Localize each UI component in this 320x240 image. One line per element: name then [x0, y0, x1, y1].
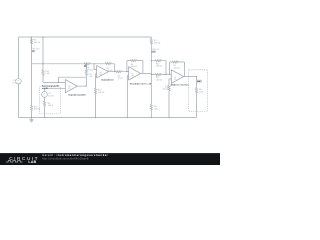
wire U2 plus to ground rail — [96, 74, 97, 118]
resistor R7 — [172, 61, 178, 63]
wire top rail — [19, 36, 152, 38]
junction at 86.3,63.8 — [86, 63, 87, 64]
junction at 58.5,82.5 — [58, 82, 59, 83]
wire U3 plus to bottom — [127, 76, 128, 118]
wire rail x151 — [150, 37, 152, 117]
svg-text:http://circuitlab.com/c4jw64tk: http://circuitlab.com/c4jw64tk2bqm8 — [42, 157, 89, 161]
wire node row y63.8 — [32, 63, 95, 65]
resistor R5 — [150, 39, 152, 44]
svg-text:OP..: OP.. — [131, 76, 135, 78]
wire out node down — [196, 77, 198, 118]
logo waveform — [6, 161, 23, 163]
junction at 86.3,86.15 — [86, 86, 87, 87]
resistor R16 divider low — [30, 105, 32, 110]
resistor R6 — [30, 39, 32, 44]
junction at 31.5,37 — [31, 36, 32, 37]
junction at 95.5,117.4 — [95, 117, 96, 118]
op-amp U5 inverting — [129, 67, 141, 80]
svg-text:mit Ri: mit Ri — [42, 87, 48, 90]
wire U1 output — [77, 85, 86, 87]
svg-text:Impedanzwandler: Impedanzwandler — [68, 93, 86, 96]
junction at 196.5,76.6 — [196, 76, 197, 77]
svg-text:VB 4.5V: VB 4.5V — [152, 49, 160, 51]
svg-text:100 kΩ: 100 kΩ — [154, 42, 161, 44]
svg-text:100 Ω: 100 Ω — [48, 105, 54, 107]
wire V1 bottom — [44, 97, 46, 117]
svg-text:Verstärker mit V = -10: Verstärker mit V = -10 — [130, 82, 152, 85]
svg-text:100 kΩ: 100 kΩ — [174, 67, 181, 69]
svg-text:100 kΩ: 100 kΩ — [156, 79, 163, 81]
wire U1 feedback — [59, 77, 87, 86]
svg-text:1 kΩ: 1 kΩ — [45, 73, 50, 75]
junction at 166,74.33 — [165, 74, 166, 75]
junction at 94,63.8 — [93, 63, 94, 64]
svg-text:-: - — [44, 95, 45, 98]
junction at 126.9,71.7 — [126, 71, 127, 72]
wire U4 plus to bottom rail — [169, 79, 171, 118]
wire U4 minus — [166, 73, 171, 75]
junction at 151.3,60.7 — [151, 60, 152, 61]
wire left rail — [18, 37, 20, 117]
wire U3 output — [141, 72, 152, 74]
resistor R11 — [195, 88, 197, 93]
svg-text:LAB: LAB — [28, 160, 36, 164]
junction at 127.3,117.4 — [127, 117, 128, 118]
wire ground stub — [31, 117, 33, 119]
svg-text:OP..: OP.. — [99, 74, 103, 76]
junction at 114.7,71.7 — [114, 71, 115, 72]
resistor R4 — [131, 60, 137, 62]
ground main — [30, 120, 34, 123]
resistor R17 — [85, 70, 87, 75]
junction at 31.5,117.4 — [31, 117, 32, 118]
resistor R9 — [43, 101, 45, 106]
voltage source V1 — [42, 92, 48, 98]
svg-text:1 kΩ: 1 kΩ — [89, 76, 93, 78]
wire Rgain bottom row — [151, 74, 166, 76]
wire rail x31.5 — [31, 37, 33, 117]
resistor R2 — [105, 62, 111, 64]
resistor R14 — [155, 74, 161, 76]
svg-text:100 kΩ: 100 kΩ — [131, 66, 138, 68]
op-amp U2 output stage — [171, 70, 183, 84]
svg-text:out: out — [197, 80, 200, 83]
svg-text:-: - — [18, 82, 19, 85]
svg-text:10 mV: 10 mV — [48, 95, 54, 97]
svg-text:VB 4.5V: VB 4.5V — [32, 49, 40, 51]
wire rail x43 — [43, 37, 65, 83]
node flag out — [197, 80, 202, 83]
wire U2 minus — [94, 64, 97, 70]
svg-text:1 kΩ: 1 kΩ — [199, 92, 204, 94]
junction at 151.3,117.4 — [151, 117, 152, 118]
op-amp U3 buffer — [65, 80, 77, 93]
voltage source V2 — [16, 79, 22, 85]
junction at 43,63.8 — [42, 63, 43, 64]
annotation box load — [189, 70, 208, 112]
junction dots — [31, 36, 197, 118]
junction at 169.6,74.33 — [169, 74, 170, 75]
svg-text:100 kΩ: 100 kΩ — [34, 42, 41, 44]
resistor R15 — [150, 104, 152, 109]
wire U4 feedback — [170, 62, 185, 77]
svg-text:OP..: OP.. — [68, 88, 72, 90]
wire U2 output — [108, 71, 127, 73]
resistor R13 — [155, 60, 161, 62]
node flag v2 — [84, 65, 87, 67]
svg-text:Harald : instrumentierungsvers: Harald : instrumentierungsverstaerker — [42, 153, 108, 157]
wire U3 minus — [127, 70, 129, 72]
wire rail x166 — [165, 61, 167, 75]
svg-text:100 kΩ: 100 kΩ — [156, 65, 163, 67]
wire Rgain top row — [151, 60, 166, 62]
wire U4 output — [184, 76, 197, 78]
svg-text:100 kΩ: 100 kΩ — [107, 70, 113, 72]
junction at 44.5,117.4 — [44, 117, 45, 118]
resistor R18 — [168, 85, 170, 90]
svg-text:100 kΩ: 100 kΩ — [98, 92, 105, 94]
svg-text:Addierer / Inverter: Addierer / Inverter — [171, 83, 189, 86]
junction at 151.3,74.1 — [151, 74, 152, 75]
node flag VB left — [32, 50, 35, 52]
wire U3 feedback — [127, 61, 143, 74]
resistor R3 — [116, 71, 122, 73]
op-amp U4 subtractor — [97, 66, 109, 78]
svg-text:OP..: OP.. — [174, 79, 178, 81]
junction at 169,117.4 — [168, 117, 169, 118]
svg-text:100 kΩ: 100 kΩ — [34, 109, 41, 111]
resistor R12 — [94, 88, 96, 93]
resistor R10 — [42, 70, 44, 75]
wire V1 to opamp — [45, 88, 66, 91]
wire R17 link — [85, 64, 87, 77]
resistor R8 — [84, 63, 90, 65]
wire U2 feedback top — [94, 64, 115, 72]
svg-text:1 kΩ: 1 kΩ — [154, 108, 159, 110]
footer bar — [0, 153, 220, 165]
junction at 43,37 — [42, 36, 43, 37]
svg-text:10 kΩ: 10 kΩ — [118, 78, 124, 80]
wire bottom rail — [19, 116, 197, 118]
svg-text:100 kΩ: 100 kΩ — [162, 89, 168, 91]
svg-text:Subtrahierer: Subtrahierer — [101, 79, 114, 82]
node flag VB mid — [152, 51, 156, 53]
annotation box source — [40, 87, 61, 114]
